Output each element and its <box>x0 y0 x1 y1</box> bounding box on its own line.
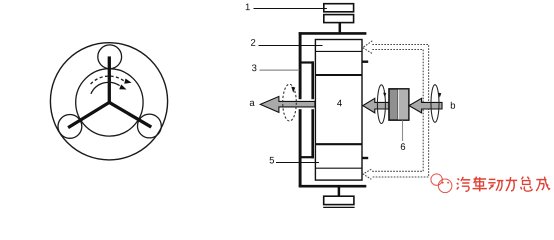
label 5 <box>270 157 275 164</box>
solid rotation arc <box>91 82 120 94</box>
label b <box>451 102 455 109</box>
dashed feedback loop inner path <box>371 50 423 172</box>
rotation ellipse a arrowhead <box>291 87 295 93</box>
dashed rotation ellipse a <box>283 84 297 121</box>
label a <box>250 101 255 106</box>
input arrow b <box>409 98 442 113</box>
roller bottom-left <box>58 115 82 139</box>
char 总 <box>521 177 533 192</box>
rotation arc right arrowhead <box>438 93 441 98</box>
leader line 6 <box>402 120 404 141</box>
mount stack top rect A <box>324 4 354 12</box>
leader line 3 <box>260 69 300 71</box>
rotation arc left arrowhead <box>383 93 386 98</box>
stub right top <box>362 61 368 63</box>
mount stack bottom rect C <box>324 196 354 204</box>
leader line 1 <box>254 8 327 10</box>
label 3 <box>252 64 257 71</box>
member 3 top cap <box>299 61 314 63</box>
leader line 2 <box>259 45 323 47</box>
inner rotor circle <box>76 69 143 136</box>
output arrow a <box>260 96 315 112</box>
input arrow 1 (unit to coupling) <box>363 98 389 113</box>
label 4 <box>337 100 342 107</box>
char 汽 <box>457 177 470 191</box>
gear unit inner rect <box>315 40 362 181</box>
divider lower thick <box>315 143 362 145</box>
frame bottom line <box>299 185 367 188</box>
char 车 <box>473 177 487 192</box>
logo icon circle small <box>431 174 442 185</box>
member 3 bar <box>311 61 314 158</box>
label 6 <box>401 143 405 150</box>
connector stem bottom <box>338 187 341 196</box>
member 3 bottom cap <box>299 156 314 158</box>
dashed arrowhead top <box>363 41 373 54</box>
frame left wall <box>299 32 302 186</box>
frame top line <box>299 32 367 35</box>
spoke lower-right <box>109 102 151 127</box>
label 2 <box>251 39 255 46</box>
divider top thin <box>315 50 362 52</box>
dashed feedback loop outer path <box>371 45 428 178</box>
mount stack top rect B <box>324 15 354 23</box>
dashed arc arrowhead <box>124 79 131 84</box>
dashed arrowhead bottom <box>363 169 371 179</box>
stub right bottom <box>362 157 368 159</box>
char 成 <box>536 177 550 191</box>
rotation arc right arrowhead side <box>431 85 439 123</box>
coupling 6 body right cell <box>389 89 409 120</box>
divider upper thick <box>315 74 362 76</box>
roller top <box>98 45 122 69</box>
logo icon circle large <box>438 179 452 193</box>
logo text 汽车动力总成 drawn as strokes <box>457 177 550 192</box>
rotation arc left of coupling <box>377 85 385 124</box>
mount stack bottom rect D partial <box>324 207 354 209</box>
spoke lower-left <box>68 102 109 127</box>
label 1 <box>246 4 250 11</box>
connector stem top <box>339 23 342 33</box>
divider bottom thin <box>315 167 362 169</box>
char 力 <box>506 177 517 191</box>
spoke up <box>108 56 111 102</box>
coupling 6 divider <box>397 90 399 120</box>
coupling 6 left cell <box>389 89 397 120</box>
roller bottom-right <box>138 114 162 138</box>
char 动 <box>488 179 503 190</box>
leader line 5 <box>276 162 319 164</box>
outer ring circle <box>50 43 167 160</box>
dashed rotation arc <box>91 76 124 84</box>
white halo for shaft a <box>296 99 315 109</box>
solid arc arrowhead <box>119 84 126 89</box>
logo icon eyes <box>442 182 444 184</box>
